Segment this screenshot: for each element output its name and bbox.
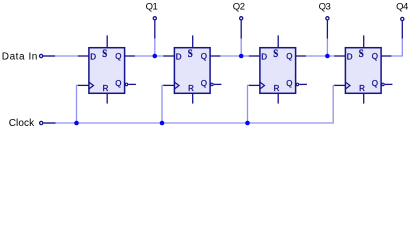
wire Q1 riser bbox=[154, 38, 156, 56]
flip-flop U1 pin CLK bbox=[78, 84, 89, 86]
svg-text:R: R bbox=[274, 84, 280, 93]
flip-flop U4 pin Qbar bubble bbox=[382, 83, 385, 86]
svg-text:D: D bbox=[261, 52, 267, 61]
flip-flop U1 clock edge triangle bbox=[89, 82, 94, 89]
flip-flop U3 pin CLK bbox=[249, 84, 260, 86]
flip-flop U2 pin S bbox=[192, 35, 194, 47]
wire Q3 riser bbox=[326, 38, 328, 56]
flip-flop U2 body bbox=[174, 48, 210, 94]
junction clock node 1 bbox=[74, 121, 79, 126]
svg-text:Q: Q bbox=[372, 52, 378, 61]
svg-text:Clock: Clock bbox=[9, 118, 35, 129]
flip-flop U3 pin Q bbox=[296, 55, 306, 57]
wire clock riser to U4 bbox=[333, 84, 336, 86]
svg-text:Q: Q bbox=[115, 52, 121, 61]
node Data In terminal bbox=[40, 54, 43, 57]
node Q3 terminal bbox=[326, 17, 329, 20]
svg-text:S: S bbox=[102, 48, 107, 60]
flip-flop U2 pin D bbox=[163, 55, 174, 57]
wire clock riser to U3 bbox=[248, 85, 251, 123]
wire clock bus bbox=[44, 85, 334, 123]
flip-flop U4 pin S bbox=[363, 35, 365, 47]
svg-text:R: R bbox=[359, 84, 365, 93]
node Q1 terminal bbox=[153, 17, 156, 20]
flip-flop U2 pin Q bbox=[210, 55, 220, 57]
flip-flop U3 pin D bbox=[249, 55, 260, 57]
svg-text:Q: Q bbox=[286, 52, 292, 61]
wire clock riser to U1 bbox=[77, 85, 80, 123]
flip-flop U4 pin Q bbox=[381, 55, 391, 57]
flip-flop U1 body bbox=[89, 48, 125, 94]
flip-flop U3 pin Qbar bubble bbox=[296, 83, 299, 86]
node Clock terminal bbox=[40, 121, 43, 124]
wire U4.Q to Q4 terminal bbox=[391, 38, 403, 56]
flip-flop U1 pin Qbar bubble bbox=[125, 83, 128, 86]
flip-flop U3 clock edge triangle bbox=[260, 82, 265, 89]
flip-flop U3 pin S bbox=[277, 35, 279, 47]
svg-text:D: D bbox=[347, 52, 353, 61]
junction Q3 node bbox=[325, 54, 330, 59]
svg-text:S: S bbox=[188, 48, 193, 60]
flip-flop U3 pin R bbox=[277, 93, 279, 103]
flip-flop U4 pin CLK bbox=[334, 84, 345, 86]
svg-text:Q4: Q4 bbox=[396, 1, 408, 12]
svg-text:R: R bbox=[103, 84, 109, 93]
svg-text:Q2: Q2 bbox=[233, 1, 245, 12]
flip-flop U3 body bbox=[260, 48, 296, 94]
flip-flop U2 clock edge triangle bbox=[174, 82, 179, 89]
wire U1.Q to U2.D bbox=[134, 55, 164, 57]
junction Q1 node bbox=[153, 54, 158, 59]
wire U2.Q to U3.D bbox=[220, 55, 250, 57]
node Q4 terminal bbox=[401, 17, 404, 20]
junction Q2 node bbox=[239, 54, 244, 59]
flip-flop U1 pin R bbox=[106, 93, 108, 103]
svg-text:D: D bbox=[90, 52, 96, 61]
junction clock node 2 bbox=[160, 121, 165, 126]
svg-text:Q1: Q1 bbox=[146, 1, 158, 12]
svg-text:Q: Q bbox=[201, 79, 207, 88]
wire U3.Q to U4.D bbox=[305, 55, 335, 57]
svg-text:S: S bbox=[359, 48, 364, 60]
svg-text:Q: Q bbox=[115, 79, 121, 88]
flip-flop U4 pin R bbox=[363, 93, 365, 103]
junction clock node 3 bbox=[245, 121, 250, 126]
flip-flop U1 pin D bbox=[78, 55, 89, 57]
wire Data In to U1.D bbox=[43, 55, 79, 57]
svg-text:Data In: Data In bbox=[2, 52, 38, 63]
flip-flop U2 pin R bbox=[192, 93, 194, 103]
svg-text:Q: Q bbox=[286, 79, 292, 88]
flip-flop U1 pin S bbox=[106, 35, 108, 47]
svg-text:Q: Q bbox=[372, 79, 378, 88]
svg-text:Q: Q bbox=[201, 52, 207, 61]
svg-text:R: R bbox=[188, 84, 194, 93]
wire Q2 riser bbox=[240, 38, 242, 56]
svg-text:S: S bbox=[273, 48, 278, 60]
node Q2 terminal bbox=[240, 17, 243, 20]
flip-flop U4 body bbox=[345, 48, 381, 94]
svg-text:Q3: Q3 bbox=[319, 1, 331, 12]
flip-flop U2 pin CLK bbox=[163, 84, 174, 86]
flip-flop U1 pin Q bbox=[125, 55, 135, 57]
flip-flop U2 pin Qbar bubble bbox=[211, 83, 214, 86]
flip-flop U4 clock edge triangle bbox=[345, 82, 350, 89]
wire clock riser to U2 bbox=[162, 85, 165, 123]
flip-flop U4 pin D bbox=[334, 55, 345, 57]
svg-text:D: D bbox=[176, 52, 182, 61]
